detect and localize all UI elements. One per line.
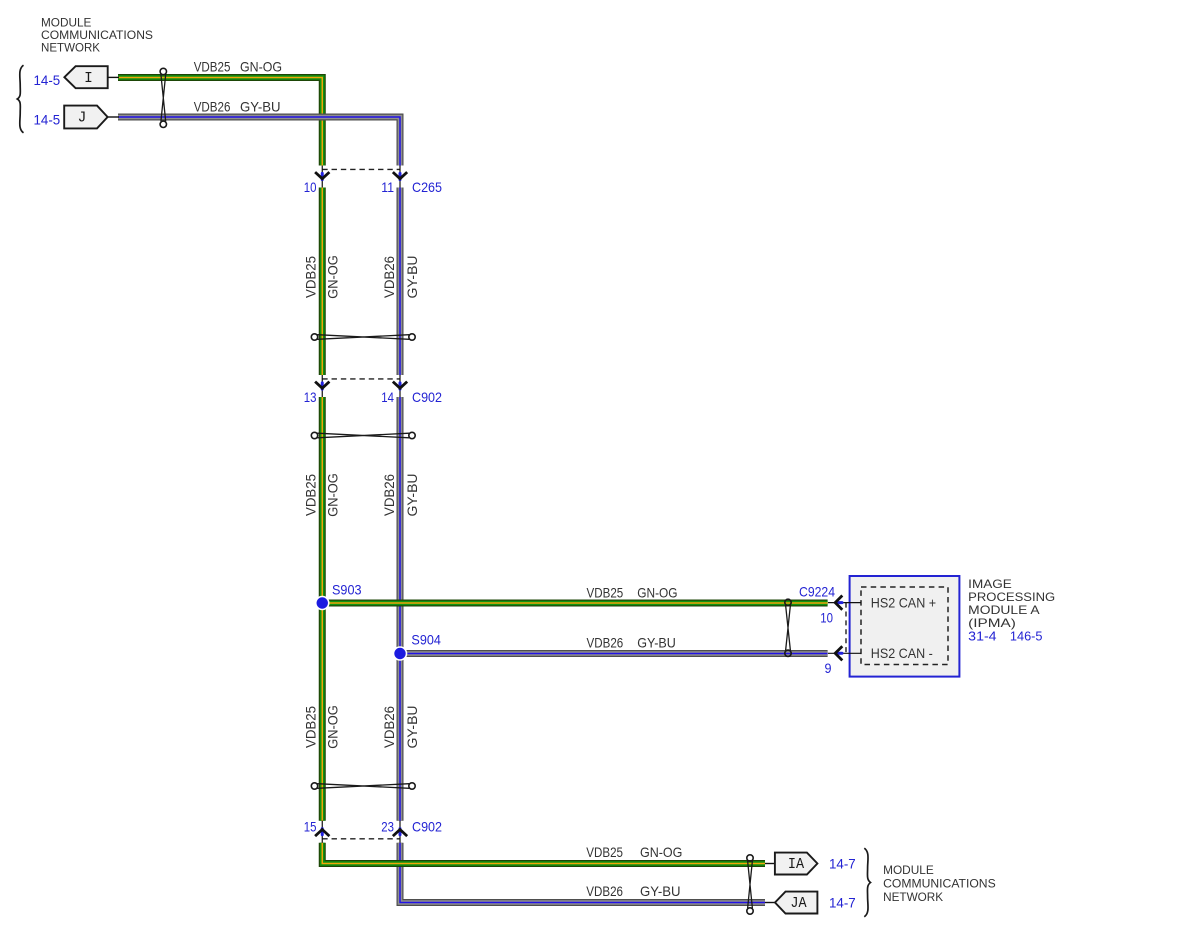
wire VDB26 GY-BU segment 1: from pin J right then down to C265 pin 11	[118, 117, 400, 166]
connector C9224 dashed link line between pins 10 and 9	[845, 603, 847, 654]
svg-text:23: 23	[381, 818, 394, 834]
rotated wire labels section 2	[304, 473, 421, 517]
wire VDB26 GY-BU segment 3: C902 pin 14 down through S904 to C902 pin 23	[399, 397, 401, 821]
pin JA connector symbol	[775, 892, 817, 914]
svg-text:S904: S904	[411, 632, 441, 648]
bottom connector C902 pin 23 junction: wire link, blue pin mark, up arrow	[393, 821, 407, 843]
IPMA pin 10 junction: lead line, blue pin mark, left arrow	[828, 596, 861, 610]
svg-text:GY-BU: GY-BU	[240, 99, 281, 114]
wire label VDB25 GN-OG top	[194, 59, 282, 74]
wire label VDB26 GY-BU top	[194, 99, 281, 114]
svg-text:S903: S903	[332, 582, 362, 598]
svg-text:VDB26: VDB26	[194, 99, 231, 114]
svg-text:C265: C265	[412, 179, 442, 195]
svg-text:GY-BU: GY-BU	[405, 256, 420, 299]
rotated wire labels section 1 (VDB25 GN-OG / VDB26 GY-BU)	[304, 255, 421, 299]
svg-text:IA: IA	[788, 857, 804, 873]
svg-text:VDB25: VDB25	[194, 59, 231, 74]
svg-text:VDB25: VDB25	[587, 585, 624, 600]
top left title MODULE COMMUNICATIONS NETWORK	[41, 16, 153, 55]
svg-text:MODULE A: MODULE A	[968, 603, 1039, 617]
svg-text:146-5: 146-5	[1010, 629, 1043, 644]
svg-text:GN-OG: GN-OG	[640, 845, 682, 860]
wire VDB25 GN-OG segment 2: C265 pin 10 down to C902 pin 13	[321, 188, 323, 376]
svg-text:VDB25: VDB25	[586, 845, 623, 860]
svg-text:GY-BU: GY-BU	[637, 635, 676, 650]
IPMA description text block	[968, 577, 1055, 630]
svg-text:15: 15	[304, 818, 317, 834]
wire label VDB25 GN-OG at S903 branch	[587, 585, 678, 600]
pin J lead line	[108, 116, 119, 118]
left continuation brace	[17, 65, 23, 133]
svg-text:GN-OG: GN-OG	[325, 255, 340, 299]
IPMA module box	[850, 576, 960, 677]
svg-text:31-4: 31-4	[968, 629, 996, 644]
connector C902 pin 14 junction: wire link, blue pin mark, arrow	[393, 375, 407, 397]
svg-text:GY-BU: GY-BU	[405, 706, 420, 749]
twisted pair symbol, horizontal, below C902	[311, 432, 415, 438]
svg-text:C902: C902	[412, 389, 442, 405]
wire VDB26 GY-BU branch from splice S904 to IPMA pin 9	[400, 653, 828, 655]
IPMA page references 31-4 146-5	[968, 629, 1042, 644]
svg-text:10: 10	[820, 609, 833, 625]
pin J connector symbol	[64, 106, 107, 129]
wire VDB26 GY-BU segment 4: C902 pin 23 down then right to pin JA	[400, 843, 765, 903]
svg-text:JA: JA	[790, 896, 806, 912]
bottom connector C902 pin 15 junction: wire link, blue pin mark, up arrow	[315, 821, 329, 843]
svg-text:GN-OG: GN-OG	[637, 585, 677, 600]
svg-text:9: 9	[825, 660, 832, 676]
svg-text:VDB26: VDB26	[586, 884, 623, 899]
svg-text:14: 14	[381, 389, 394, 405]
svg-text:GY-BU: GY-BU	[405, 474, 420, 517]
twisted pair symbol, vertical, top left	[160, 68, 166, 127]
svg-text:IMAGE: IMAGE	[968, 577, 1012, 591]
wire label VDB26 GY-BU bottom	[586, 884, 680, 899]
pin I lead line	[108, 76, 119, 78]
svg-text:14-5: 14-5	[34, 72, 61, 88]
twisted pair symbol, vertical, near IPMA pins	[785, 599, 791, 656]
svg-text:GN-OG: GN-OG	[325, 705, 340, 749]
svg-text:NETWORK: NETWORK	[41, 41, 100, 55]
wire label VDB26 GY-BU at S904 branch	[587, 635, 676, 650]
connector C265 pin 10 junction: wire link, blue pin mark, arrow	[315, 166, 329, 188]
svg-text:VDB25: VDB25	[304, 706, 319, 748]
svg-text:VDB26: VDB26	[382, 706, 397, 748]
svg-text:11: 11	[381, 179, 394, 195]
svg-text:14-7: 14-7	[829, 855, 856, 871]
pin JA lead line	[765, 902, 776, 904]
splice S903	[315, 596, 330, 611]
splice S904	[393, 646, 408, 661]
svg-text:PROCESSING: PROCESSING	[968, 590, 1055, 604]
IPMA pin 9 junction: lead line, blue pin mark, left arrow	[828, 646, 861, 660]
wire VDB25 GN-OG segment 3: C902 pin 13 down through S903 to C902 pin 15	[321, 397, 323, 821]
wire VDB25 GN-OG branch from splice S903 to IPMA pin 10	[322, 602, 827, 604]
svg-text:GN-OG: GN-OG	[240, 59, 282, 74]
svg-text:C9224: C9224	[799, 583, 835, 599]
svg-text:VDB26: VDB26	[382, 256, 397, 298]
right continuation brace	[864, 848, 870, 917]
wire label VDB25 GN-OG bottom	[586, 845, 682, 860]
connector C902 pin 13 junction: wire link, blue pin mark, arrow	[315, 375, 329, 397]
connector C265 dashed link line	[322, 168, 400, 170]
IPMA internal dashed connector boundary	[861, 587, 948, 665]
wire VDB25 GN-OG segment 1: from pin I right then down to C265 pin 10	[118, 78, 322, 166]
pin IA lead line	[765, 863, 775, 865]
svg-text:NETWORK: NETWORK	[883, 890, 943, 904]
svg-text:HS2 CAN +: HS2 CAN +	[871, 595, 936, 610]
twisted pair symbol, horizontal, above bottom C902	[311, 783, 415, 789]
pin IA connector symbol	[775, 853, 818, 875]
svg-text:GN-OG: GN-OG	[325, 473, 340, 517]
connector C265 pin 11 junction: wire link, blue pin mark, arrow	[393, 166, 407, 188]
bottom right title MODULE COMMUNICATIONS NETWORK	[883, 863, 996, 904]
svg-text:C902: C902	[412, 818, 442, 834]
bottom connector C902 dashed link line	[322, 838, 400, 840]
pin I connector symbol	[64, 66, 107, 88]
twisted pair symbol, horizontal, between C265 and C902	[311, 334, 415, 340]
rotated wire labels section 3	[304, 705, 421, 749]
wire VDB25 GN-OG segment 4: C902 pin 15 down then right to pin IA	[322, 843, 765, 864]
svg-text:13: 13	[304, 389, 317, 405]
twisted pair symbol, vertical, bottom right before IA/JA	[747, 855, 753, 914]
wire VDB26 GY-BU segment 2: C265 pin 11 down to C902 pin 14	[399, 188, 401, 376]
svg-text:14-7: 14-7	[829, 894, 856, 910]
svg-text:VDB25: VDB25	[304, 474, 319, 516]
svg-text:HS2 CAN -: HS2 CAN -	[871, 646, 933, 661]
svg-text:COMMUNICATIONS: COMMUNICATIONS	[883, 876, 996, 890]
svg-text:J: J	[78, 111, 87, 127]
svg-text:14-5: 14-5	[34, 111, 61, 127]
svg-text:VDB26: VDB26	[382, 474, 397, 516]
connector C902 dashed link line	[322, 378, 400, 380]
svg-text:MODULE: MODULE	[883, 863, 934, 877]
svg-text:VDB26: VDB26	[587, 635, 624, 650]
svg-text:10: 10	[304, 179, 317, 195]
svg-text:I: I	[84, 71, 93, 87]
svg-text:GY-BU: GY-BU	[640, 884, 681, 899]
svg-text:VDB25: VDB25	[304, 256, 319, 298]
